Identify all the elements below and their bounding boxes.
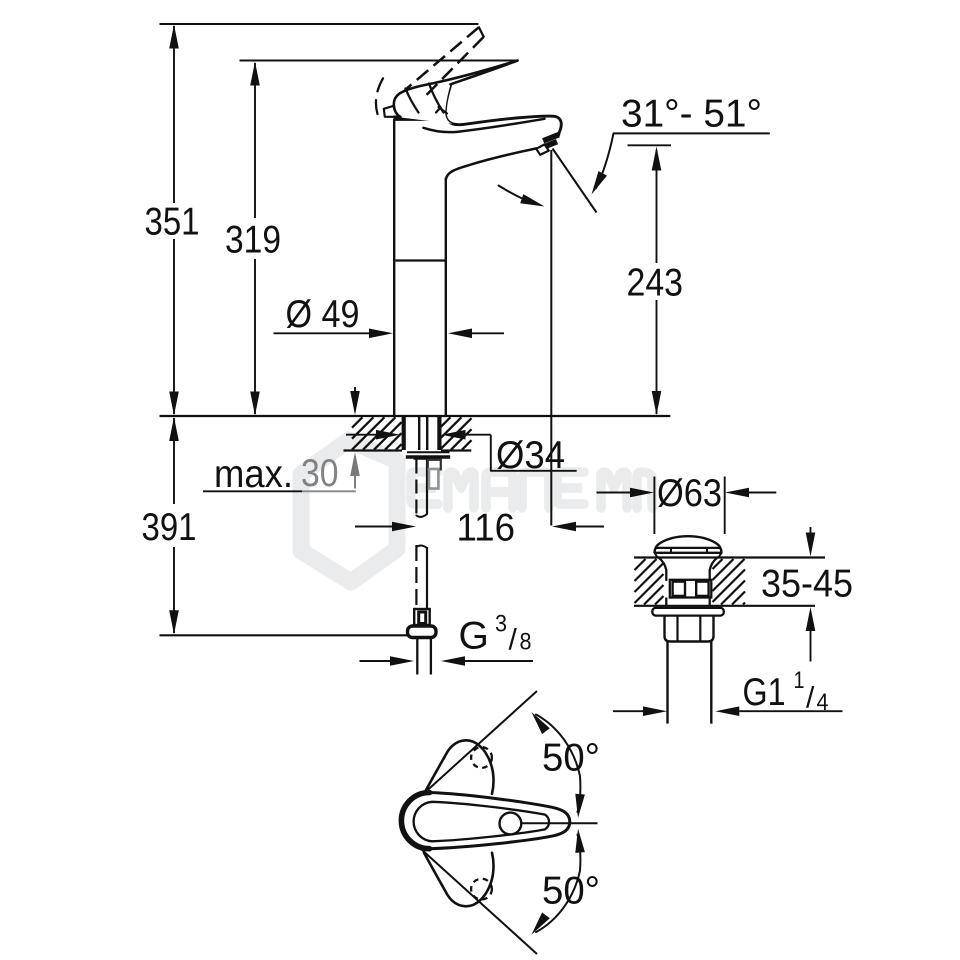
svg-text:/: /: [806, 682, 815, 715]
svg-text:243: 243: [627, 262, 684, 305]
svg-text:G: G: [459, 614, 489, 657]
svg-text:35-45: 35-45: [761, 563, 853, 606]
svg-text:Ø 49: Ø 49: [286, 293, 360, 336]
svg-text:30: 30: [301, 452, 339, 495]
svg-text:351: 351: [145, 201, 200, 244]
svg-text:50°: 50°: [542, 737, 600, 780]
svg-text:Ø34: Ø34: [496, 434, 565, 477]
svg-text:116: 116: [457, 507, 516, 550]
svg-text:1: 1: [794, 667, 805, 694]
svg-text:/: /: [509, 624, 518, 657]
svg-text:3: 3: [495, 610, 507, 637]
svg-text:max.: max.: [214, 453, 293, 496]
svg-text:50°: 50°: [542, 869, 600, 912]
svg-text:391: 391: [142, 506, 197, 549]
svg-text:8: 8: [520, 629, 532, 656]
svg-text:31°- 51°: 31°- 51°: [621, 93, 762, 136]
svg-text:319: 319: [225, 219, 281, 262]
svg-text:Ø63: Ø63: [657, 472, 722, 515]
svg-text:G1: G1: [743, 671, 786, 714]
